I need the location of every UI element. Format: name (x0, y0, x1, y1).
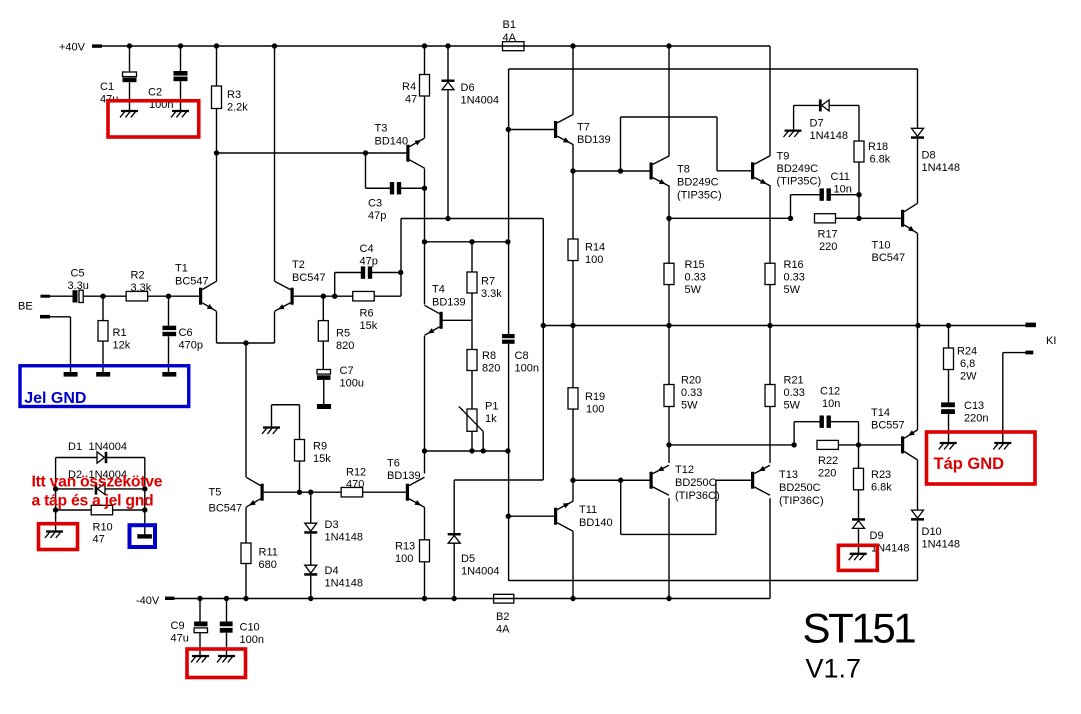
svg-text:C4: C4 (360, 243, 374, 255)
svg-text:C2: C2 (148, 87, 162, 99)
svg-text:R11: R11 (259, 547, 278, 559)
svg-text:+40V: +40V (59, 41, 86, 53)
svg-text:220: 220 (819, 241, 837, 253)
svg-text:47: 47 (93, 534, 105, 546)
svg-text:R12: R12 (346, 467, 366, 479)
svg-text:R8: R8 (482, 350, 496, 362)
svg-text:Táp GND: Táp GND (934, 455, 1005, 473)
svg-text:1N4004: 1N4004 (461, 566, 500, 578)
svg-text:R19: R19 (585, 391, 605, 403)
svg-text:Itt van összekötve: Itt van összekötve (32, 473, 163, 490)
svg-text:5W: 5W (681, 400, 698, 412)
svg-text:R9: R9 (313, 441, 327, 453)
svg-text:3.3k: 3.3k (481, 288, 502, 300)
svg-text:C8: C8 (515, 350, 529, 362)
svg-text:2W: 2W (960, 371, 977, 383)
svg-text:B1: B1 (503, 19, 516, 31)
svg-text:BC547: BC547 (872, 252, 906, 264)
svg-text:R23: R23 (871, 469, 891, 481)
svg-text:100: 100 (395, 553, 413, 565)
svg-text:R17: R17 (818, 229, 838, 241)
svg-text:10n: 10n (834, 183, 852, 195)
svg-text:C3: C3 (368, 198, 382, 210)
svg-text:(TIP36C): (TIP36C) (779, 495, 824, 507)
svg-text:6.8k: 6.8k (870, 154, 891, 166)
svg-text:a táp és a jel gnd: a táp és a jel gnd (32, 492, 154, 509)
svg-text:R21: R21 (784, 375, 804, 387)
svg-text:4A: 4A (503, 32, 517, 44)
svg-text:220n: 220n (964, 413, 988, 425)
svg-text:ST151: ST151 (803, 604, 916, 651)
svg-text:T11: T11 (579, 504, 597, 516)
svg-text:T12: T12 (675, 464, 694, 476)
svg-text:1N4148: 1N4148 (810, 130, 849, 142)
svg-text:BD139: BD139 (577, 134, 611, 146)
svg-text:1N4004: 1N4004 (461, 95, 500, 107)
svg-text:BC547: BC547 (209, 503, 243, 515)
svg-text:T10: T10 (872, 240, 891, 252)
svg-text:5W: 5W (784, 284, 801, 296)
svg-text:12k: 12k (113, 340, 131, 352)
svg-text:T3: T3 (375, 123, 388, 135)
svg-text:15k: 15k (360, 320, 378, 332)
svg-text:B2: B2 (496, 611, 509, 623)
svg-text:R13: R13 (395, 541, 415, 553)
svg-text:R18: R18 (868, 141, 888, 153)
svg-text:0.33: 0.33 (784, 272, 805, 284)
svg-text:D7: D7 (810, 118, 824, 130)
svg-text:BD250C: BD250C (779, 482, 821, 494)
svg-text:-40V: -40V (136, 595, 160, 607)
svg-text:R6: R6 (360, 308, 374, 320)
svg-text:1N4148: 1N4148 (325, 532, 364, 544)
svg-text:820: 820 (336, 340, 354, 352)
svg-text:5W: 5W (784, 400, 801, 412)
svg-text:10n: 10n (822, 398, 840, 410)
svg-text:R24: R24 (957, 346, 977, 358)
svg-text:D8: D8 (922, 150, 936, 162)
svg-text:BD140: BD140 (375, 136, 409, 148)
svg-text:R10: R10 (93, 522, 113, 534)
svg-text:BD139: BD139 (432, 297, 466, 309)
svg-text:R7: R7 (481, 276, 495, 288)
svg-text:820: 820 (482, 363, 500, 375)
svg-text:470: 470 (346, 479, 364, 491)
svg-text:R20: R20 (681, 375, 701, 387)
svg-text:D3: D3 (325, 519, 339, 531)
svg-text:100u: 100u (340, 378, 364, 390)
svg-text:Jel GND: Jel GND (24, 390, 86, 407)
svg-text:R4: R4 (402, 81, 416, 93)
svg-text:C9: C9 (171, 620, 185, 632)
svg-text:C13: C13 (964, 400, 984, 412)
svg-text:47p: 47p (368, 210, 386, 222)
svg-text:T1: T1 (175, 263, 188, 275)
svg-text:680: 680 (259, 559, 277, 571)
svg-text:4A: 4A (496, 624, 510, 636)
svg-text:0.33: 0.33 (685, 272, 706, 284)
svg-text:R22: R22 (818, 455, 838, 467)
svg-text:(TIP36C): (TIP36C) (675, 490, 720, 502)
svg-text:KI: KI (1046, 335, 1056, 347)
svg-text:0.33: 0.33 (784, 387, 805, 399)
svg-text:1N4004: 1N4004 (89, 441, 128, 453)
svg-text:C1: C1 (100, 81, 114, 93)
svg-text:BC547: BC547 (292, 272, 326, 284)
svg-text:6,8: 6,8 (960, 358, 975, 370)
svg-text:15k: 15k (313, 453, 331, 465)
svg-text:BE: BE (18, 301, 33, 313)
svg-text:D1: D1 (68, 441, 82, 453)
svg-text:T7: T7 (577, 122, 590, 134)
svg-text:47u: 47u (171, 633, 189, 645)
svg-text:T5: T5 (209, 487, 222, 499)
svg-text:BC547: BC547 (175, 276, 209, 288)
svg-text:1N4148: 1N4148 (325, 578, 364, 590)
svg-text:2.2k: 2.2k (227, 102, 248, 114)
svg-text:C12: C12 (820, 386, 840, 398)
svg-text:(TIP35C): (TIP35C) (777, 176, 822, 188)
svg-text:BD249C: BD249C (677, 177, 719, 189)
svg-text:D9: D9 (870, 530, 884, 542)
svg-text:R3: R3 (227, 89, 241, 101)
svg-text:T13: T13 (779, 469, 798, 481)
svg-text:100n: 100n (240, 634, 264, 646)
svg-text:3.3k: 3.3k (131, 282, 152, 294)
svg-text:1N4148: 1N4148 (922, 162, 961, 174)
svg-text:R2: R2 (131, 270, 145, 282)
svg-text:T9: T9 (777, 151, 790, 163)
svg-text:1k: 1k (485, 413, 497, 425)
svg-text:C11: C11 (831, 171, 850, 183)
svg-text:BD140: BD140 (579, 517, 613, 529)
svg-text:T2: T2 (292, 259, 305, 271)
svg-text:47p: 47p (360, 256, 378, 268)
svg-text:D6: D6 (461, 82, 475, 94)
svg-text:T8: T8 (677, 164, 690, 176)
svg-text:220: 220 (818, 468, 836, 480)
svg-text:R15: R15 (685, 259, 705, 271)
svg-text:R1: R1 (113, 327, 127, 339)
svg-text:BD139: BD139 (387, 470, 421, 482)
svg-text:C6: C6 (179, 327, 193, 339)
svg-text:470p: 470p (179, 340, 203, 352)
svg-text:T4: T4 (432, 284, 445, 296)
svg-text:BD249C: BD249C (777, 163, 819, 175)
svg-text:5W: 5W (685, 284, 702, 296)
svg-text:BD250C: BD250C (675, 477, 717, 489)
svg-text:47: 47 (405, 94, 417, 106)
svg-text:R14: R14 (585, 242, 605, 254)
svg-text:BC557: BC557 (871, 420, 905, 432)
svg-text:(TIP35C): (TIP35C) (677, 190, 722, 202)
svg-text:V1.7: V1.7 (806, 653, 862, 683)
svg-text:C10: C10 (240, 622, 260, 634)
svg-text:R16: R16 (784, 259, 804, 271)
svg-text:C7: C7 (340, 365, 354, 377)
svg-text:D5: D5 (461, 553, 475, 565)
svg-text:100: 100 (585, 254, 603, 266)
svg-text:0.33: 0.33 (681, 387, 702, 399)
svg-text:1N4148: 1N4148 (922, 539, 961, 551)
svg-text:P1: P1 (485, 401, 498, 413)
svg-text:100n: 100n (515, 363, 539, 375)
svg-text:T14: T14 (871, 407, 890, 419)
svg-text:R5: R5 (336, 328, 350, 340)
svg-text:6.8k: 6.8k (871, 482, 892, 494)
svg-text:100: 100 (586, 404, 604, 416)
svg-text:C5: C5 (71, 268, 85, 280)
svg-text:D4: D4 (325, 565, 339, 577)
svg-text:T6: T6 (387, 458, 400, 470)
svg-text:D10: D10 (922, 526, 942, 538)
svg-text:3.3u: 3.3u (68, 280, 89, 292)
